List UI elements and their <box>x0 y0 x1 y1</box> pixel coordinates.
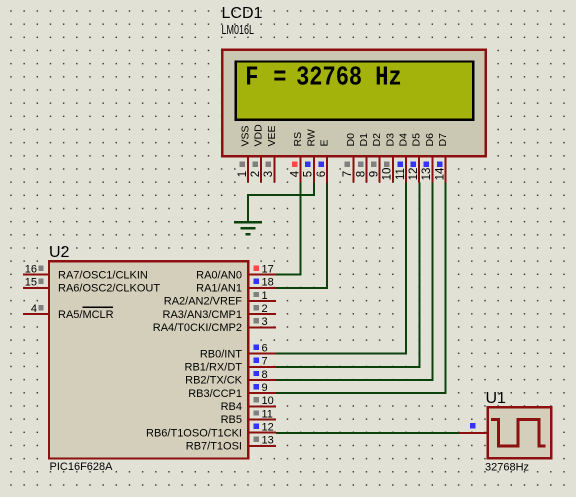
U2 pin 11 (RB5) stub <box>248 410 276 419</box>
svg-text:RA5/MCLR: RA5/MCLR <box>58 309 114 321</box>
U2 pin 17 (RA0/AN0) stub <box>248 266 276 275</box>
svg-text:2: 2 <box>262 303 268 315</box>
svg-text:RA2/AN2/VREF: RA2/AN2/VREF <box>164 296 243 308</box>
svg-text:RB3/CCP1: RB3/CCP1 <box>188 388 242 400</box>
svg-text:D6: D6 <box>424 133 436 147</box>
ground <box>234 222 262 234</box>
U1 body <box>488 407 552 458</box>
wire RW: LCD pin5 to ground <box>248 183 314 222</box>
svg-text:17: 17 <box>262 264 274 276</box>
svg-text:32768Hz: 32768Hz <box>485 462 529 474</box>
U2 pin 16 (RA7/OSC1/CLKIN) stub <box>23 266 48 275</box>
wire D6: LCD pin13 to U2 RB2 <box>276 183 433 381</box>
svg-text:RB6/T1OSO/T1CKI: RB6/T1OSO/T1CKI <box>146 427 242 439</box>
LCD display text <box>245 63 402 94</box>
LCD pin 4 (RS) stub <box>292 156 301 183</box>
svg-text:E: E <box>319 139 331 146</box>
U1 pin stub <box>459 432 487 434</box>
svg-text:6: 6 <box>316 171 328 177</box>
LCD pin 3 (VEE) stub <box>266 156 275 183</box>
svg-text:11: 11 <box>262 408 273 420</box>
LCD pin 8 (D1) stub <box>358 156 367 183</box>
LCD pin 2 (VDD) stub <box>253 156 262 183</box>
LCD pin 11 (D4) stub <box>397 156 406 183</box>
svg-text:8: 8 <box>262 369 268 381</box>
svg-text:10: 10 <box>382 168 394 181</box>
svg-text:RS: RS <box>292 132 304 147</box>
svg-text:RA7/OSC1/CLKIN: RA7/OSC1/CLKIN <box>58 269 148 281</box>
svg-text:8: 8 <box>355 171 367 177</box>
U2 pin 1 (RA2/AN2/VREF) stub <box>248 292 276 301</box>
svg-text:1: 1 <box>262 290 268 302</box>
svg-text:5: 5 <box>303 171 315 177</box>
wire D7: LCD pin14 to U2 RB3 <box>276 183 446 394</box>
LCD pin 1 (VSS) stub <box>239 156 248 183</box>
wire E: LCD pin6 to U2 RA1 <box>276 183 327 288</box>
U2 pin 6 (RB0/INT) stub <box>248 345 276 354</box>
U2 pin 12 (RB6/T1OSO/T1CKI) stub <box>248 424 276 433</box>
svg-text:RA4/T0CKI/CMP2: RA4/T0CKI/CMP2 <box>153 322 242 334</box>
svg-text:18: 18 <box>262 277 274 289</box>
svg-text:VDD: VDD <box>253 124 265 147</box>
svg-text:U1: U1 <box>486 390 507 407</box>
svg-text:9: 9 <box>262 382 268 394</box>
svg-text:10: 10 <box>262 395 274 407</box>
svg-text:1: 1 <box>237 171 249 177</box>
svg-text:13: 13 <box>262 435 274 447</box>
svg-text:VEE: VEE <box>266 125 278 146</box>
svg-text:14: 14 <box>434 167 446 180</box>
LCD pin 5 (RW) stub <box>305 156 314 183</box>
svg-text:RA3/AN3/CMP1: RA3/AN3/CMP1 <box>163 309 242 321</box>
svg-text:D3: D3 <box>384 133 396 147</box>
wire RB6 to U1 <box>276 432 459 434</box>
svg-text:4: 4 <box>290 170 302 177</box>
svg-text:4: 4 <box>31 303 37 315</box>
svg-text:RB2/TX/CK: RB2/TX/CK <box>185 375 243 387</box>
LCD pin 7 (D0) stub <box>345 156 354 183</box>
U1 square wave symbol <box>491 420 545 446</box>
svg-text:3: 3 <box>262 316 268 328</box>
svg-text:D0: D0 <box>345 133 357 147</box>
U2 pin 8 (RB2/TX/CK) stub <box>248 371 276 380</box>
LCD pin 6 (E) stub <box>318 156 327 183</box>
svg-text:LM016L: LM016L <box>222 22 255 37</box>
svg-text:D1: D1 <box>358 133 370 147</box>
svg-text:RA0/AN0: RA0/AN0 <box>196 269 242 281</box>
svg-text:VSS: VSS <box>240 125 252 146</box>
svg-text:16: 16 <box>25 264 37 276</box>
svg-text:LCD1: LCD1 <box>222 5 263 22</box>
LCD pin 13 (D6) stub <box>424 156 433 183</box>
svg-text:RB7/T1OSI: RB7/T1OSI <box>186 441 242 453</box>
svg-text:D5: D5 <box>411 133 423 147</box>
svg-text:RW: RW <box>305 129 317 146</box>
wire D5: LCD pin12 to U2 RB1 <box>276 183 420 367</box>
LCD pin 10 (D3) stub <box>384 156 393 183</box>
svg-text:2: 2 <box>250 171 262 177</box>
svg-text:13: 13 <box>421 168 433 181</box>
svg-text:RB4: RB4 <box>221 401 242 413</box>
svg-text:6: 6 <box>262 343 268 355</box>
svg-text:15: 15 <box>25 277 37 289</box>
svg-text:RB0/INT: RB0/INT <box>200 348 242 360</box>
svg-text:RB1/RX/DT: RB1/RX/DT <box>185 362 243 374</box>
svg-text:U2: U2 <box>49 244 70 261</box>
svg-text:D7: D7 <box>437 133 449 147</box>
svg-text:3: 3 <box>263 171 275 177</box>
wire D4: LCD pin11 to U2 RB0 <box>276 183 406 354</box>
U2 body <box>49 261 248 458</box>
svg-text:PIC16F628A: PIC16F628A <box>50 461 114 473</box>
U2 pin 18 (RA1/AN1) stub <box>248 279 276 288</box>
svg-text:D4: D4 <box>398 133 410 147</box>
svg-text:12: 12 <box>262 422 274 434</box>
U2 pin 10 (RB4) stub <box>248 397 276 406</box>
svg-text:D2: D2 <box>371 133 383 147</box>
U2 pin 15 (RA6/OSC2/CLKOUT) stub <box>23 279 48 288</box>
svg-text:F: F <box>245 63 258 94</box>
U2 pin 2 (RA3/AN3/CMP1) stub <box>248 305 276 314</box>
LCD pin 12 (D5) stub <box>411 156 420 183</box>
U2 pin 9 (RB3/CCP1) stub <box>248 384 276 393</box>
U2 pin 7 (RB1/RX/DT) stub <box>248 358 276 367</box>
svg-text:RA1/AN1: RA1/AN1 <box>196 283 242 295</box>
wire RS: LCD pin4 to U2 RA0 <box>276 183 301 275</box>
LCD LCD1 body <box>222 50 485 156</box>
U2 pin 13 (RB7/T1OSI) stub <box>248 437 276 446</box>
svg-text:12: 12 <box>408 168 420 181</box>
svg-text:RA6/OSC2/CLKOUT: RA6/OSC2/CLKOUT <box>58 283 160 295</box>
svg-text:11: 11 <box>395 168 407 180</box>
svg-text:RB5: RB5 <box>221 414 242 426</box>
svg-text:7: 7 <box>342 171 354 177</box>
U1 pin state square <box>470 423 476 429</box>
U2 pin 3 (RA4/T0CKI/CMP2) stub <box>248 318 276 327</box>
LCD pin 14 (D7) stub <box>437 156 446 183</box>
LCD pin 9 (D2) stub <box>371 156 380 183</box>
U2 pin 4 (RA5/MCLR) stub <box>23 305 48 314</box>
svg-text:32768 Hz: 32768 Hz <box>296 63 402 94</box>
svg-text:9: 9 <box>369 171 381 177</box>
svg-text:=: = <box>273 63 286 94</box>
LCD screen <box>236 61 473 119</box>
svg-text:7: 7 <box>262 356 268 368</box>
